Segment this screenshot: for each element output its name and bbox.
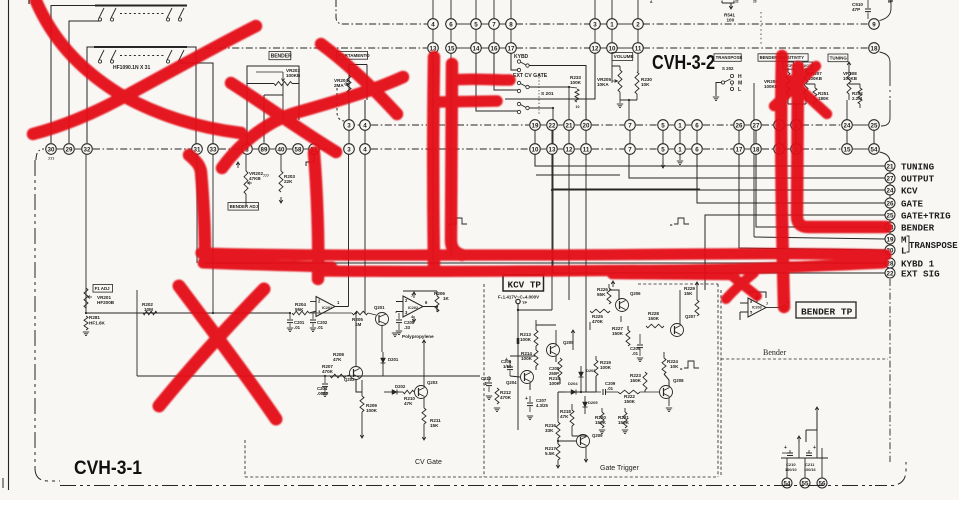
capacitor C201 — [289, 313, 291, 319]
svg-text:.01: .01 — [294, 325, 301, 330]
svg-text:24: 24 — [887, 187, 894, 194]
bus row1 segments — [456, 23, 471, 25]
svg-text:KCV: KCV — [901, 185, 918, 196]
wire S202 M down — [753, 83, 755, 237]
node 21 — [564, 120, 575, 131]
svg-text:EXT CV GATE: EXT CV GATE — [513, 73, 548, 79]
red horizontal H2 short — [203, 263, 332, 267]
red vertical V3 hooked — [189, 155, 205, 258]
svg-text:GATE+TRIG: GATE+TRIG — [901, 210, 951, 221]
wire h175 — [536, 174, 620, 176]
svg-text:19: 19 — [532, 122, 539, 129]
svg-text:8: 8 — [509, 21, 513, 28]
svg-text:47K: 47K — [560, 414, 569, 419]
wire net13 long — [551, 190, 553, 310]
wire caps to nodes — [786, 458, 788, 478]
svg-text:10K: 10K — [670, 364, 679, 369]
svg-text:2MA: 2MA — [334, 83, 344, 88]
wire kcv links — [510, 355, 536, 357]
node 8 — [506, 19, 517, 30]
node 22 — [547, 120, 558, 131]
svg-text:15: 15 — [448, 45, 455, 52]
switch gang dotted — [538, 74, 540, 114]
svg-text:4: 4 — [363, 146, 367, 153]
wire to pin22 net — [552, 108, 554, 273]
arrow net5 — [662, 154, 664, 168]
wire v137 — [136, 290, 138, 376]
red vertical V4 bender — [797, 67, 886, 227]
node 16 — [489, 43, 500, 54]
testpoint bender TP — [766, 307, 782, 309]
svg-text:D202: D202 — [395, 384, 406, 389]
wire row B left — [87, 47, 94, 143]
ground VR205 — [619, 100, 621, 103]
node x2b — [791, 144, 802, 155]
node 20 — [581, 120, 592, 131]
wire net4 portamento long — [364, 154, 366, 313]
node 10b — [530, 144, 541, 155]
svg-text:HF1090.1N X 31: HF1090.1N X 31 — [113, 65, 150, 71]
svg-text:32: 32 — [84, 146, 91, 153]
svg-text:KCV TP: KCV TP — [508, 280, 542, 291]
wire row B common right — [181, 63, 213, 144]
svg-text:100K: 100K — [366, 408, 378, 413]
wire to node24 — [846, 100, 848, 120]
svg-text:14: 14 — [473, 45, 480, 52]
svg-text:.01: .01 — [607, 386, 614, 391]
node 31 — [192, 144, 203, 155]
svg-text:29: 29 — [66, 146, 73, 153]
wire net17 down — [511, 53, 518, 70]
svg-text:30: 30 — [48, 146, 55, 153]
wire Q209 em — [585, 447, 587, 456]
node 11 — [633, 43, 644, 54]
node 89b — [242, 144, 253, 155]
svg-text:D201: D201 — [388, 357, 399, 362]
svg-text:13: 13 — [549, 146, 556, 153]
node 56 bottom — [817, 478, 827, 488]
red X4 leg2 — [790, 80, 827, 114]
svg-text:100K: 100K — [521, 356, 533, 361]
svg-text:5: 5 — [661, 122, 665, 129]
wire left box vertical — [85, 154, 87, 313]
svg-text:3: 3 — [593, 21, 597, 28]
tick marks top edge — [28, 0, 30, 4]
svg-text:TP: TP — [522, 300, 527, 305]
pin 21 TUNING — [885, 161, 895, 171]
svg-text:150K: 150K — [648, 316, 660, 321]
ground S202 — [713, 96, 719, 98]
node 1b — [675, 144, 686, 155]
dashed divider top — [760, 12, 762, 44]
svg-text:TRANSPOSE: TRANSPOSE — [909, 241, 958, 251]
svg-text:1: 1 — [678, 122, 682, 129]
svg-text:100: 100 — [727, 18, 735, 23]
node 89 — [259, 144, 270, 155]
svg-text:10K: 10K — [641, 82, 650, 87]
red horizontal H2 long — [318, 263, 883, 271]
svg-text:150K: 150K — [624, 399, 636, 404]
svg-text:S 201: S 201 — [541, 91, 554, 97]
capacitor C204 — [324, 376, 326, 383]
svg-text:Q208: Q208 — [673, 378, 684, 383]
wire row B right — [187, 47, 196, 144]
wire pin22 down dashdot — [889, 279, 891, 462]
wire net3 portamento long — [348, 154, 350, 306]
wire top-left corner bus 1 — [336, 0, 427, 24]
node 25 row3 — [869, 120, 880, 131]
svg-text:26: 26 — [736, 122, 743, 129]
svg-text:C210: C210 — [786, 462, 796, 467]
svg-text:BENDER TP: BENDER TP — [801, 307, 853, 318]
svg-text:KYBD: KYBD — [514, 54, 529, 60]
wire gate feed — [697, 154, 885, 203]
label KCV TP box — [503, 275, 544, 291]
node 58 — [293, 144, 304, 155]
op-amp IC202 — [403, 296, 423, 317]
red horizontal H5 — [437, 101, 497, 102]
label BENDER ADJ box — [228, 203, 259, 211]
svg-text:M: M — [901, 234, 907, 245]
transistor Q207 — [671, 324, 684, 337]
svg-text:BENDER: BENDER — [271, 53, 293, 59]
node 40 — [276, 144, 287, 155]
red X2 leg1 — [231, 83, 336, 152]
svg-text:15K: 15K — [430, 423, 439, 428]
svg-text:11: 11 — [583, 146, 590, 153]
pin 22 EXT SIG — [885, 268, 895, 278]
pot VR202 — [236, 162, 240, 168]
node 4b — [360, 144, 371, 155]
red X1 leg1 — [36, 1, 241, 133]
red horizontal H1 — [201, 253, 886, 255]
svg-text:IC202: IC202 — [408, 306, 418, 310]
wire M feed — [754, 237, 885, 239]
svg-text:Q205: Q205 — [563, 340, 574, 345]
svg-text:100K: 100K — [570, 80, 582, 85]
label TRANSPOSE bracket — [907, 236, 910, 252]
node 18 — [869, 43, 880, 54]
svg-text:3: 3 — [347, 146, 351, 153]
svg-text:5: 5 — [474, 21, 478, 28]
node 24 row3 — [842, 120, 853, 131]
label TRANSPOSE box — [714, 54, 741, 62]
node 15b — [842, 144, 853, 155]
wire IC202 in — [396, 302, 403, 312]
svg-text:F1 ADJ: F1 ADJ — [95, 286, 111, 291]
red vertical V6 — [314, 153, 318, 279]
node 30 — [46, 144, 57, 155]
node 14 — [471, 43, 482, 54]
wire top stubs — [432, 0, 434, 19]
red horizontal H3 — [612, 274, 734, 275]
svg-text:7: 7 — [628, 146, 632, 153]
wire tuning feed — [535, 154, 885, 166]
wire Q202 collector — [355, 313, 357, 367]
label BENDER TP box — [796, 302, 856, 318]
node 6 row3 — [692, 120, 703, 131]
wire 33 down — [212, 154, 214, 313]
bus row4 segments — [57, 148, 63, 150]
wire lower bus y376 — [137, 375, 480, 377]
transistor Q204 — [521, 371, 534, 384]
node 5 — [471, 19, 482, 30]
node 7 — [489, 19, 500, 30]
node 13 — [428, 43, 439, 54]
svg-text:Q204: Q204 — [506, 380, 517, 385]
svg-text:S 202: S 202 — [722, 66, 734, 71]
wire VR205 top — [612, 65, 620, 67]
wire row A common — [69, 21, 101, 143]
svg-text:25: 25 — [887, 212, 894, 219]
svg-text:4.3/25: 4.3/25 — [536, 403, 549, 408]
svg-text:25: 25 — [871, 122, 878, 129]
wire R233 to pin21 — [568, 87, 570, 120]
wire pin18-25 bracket — [880, 52, 891, 86]
capacitor C211 — [808, 450, 810, 453]
svg-text:19: 19 — [887, 236, 894, 243]
svg-text:6: 6 — [695, 122, 699, 129]
label VCO box — [802, 62, 813, 69]
svg-text:47KB: 47KB — [249, 176, 261, 181]
svg-text:18: 18 — [871, 45, 878, 52]
svg-text:Polypropylene: Polypropylene — [402, 334, 434, 339]
label BENDER box — [269, 52, 291, 60]
wire net12 down — [505, 53, 595, 99]
capacitor C202 — [312, 313, 314, 319]
wire node58 stub — [306, 155, 314, 166]
wire R251 link — [806, 83, 815, 85]
wire net11 long — [585, 154, 587, 392]
svg-text:18: 18 — [753, 146, 760, 153]
svg-text:GATE: GATE — [901, 198, 924, 209]
wire bender sens bottom — [788, 103, 806, 105]
keyboard contacts row A — [99, 8, 104, 18]
node x2 row3 — [791, 120, 802, 131]
svg-text:27: 27 — [753, 122, 760, 129]
svg-text:7: 7 — [492, 21, 496, 28]
svg-text:CVH-3-1: CVH-3-1 — [74, 457, 142, 479]
svg-text:Q203: Q203 — [427, 380, 438, 385]
pin 26 GATE — [885, 198, 895, 208]
dashed bender box — [720, 290, 722, 477]
wire net11 down — [637, 53, 639, 72]
svg-text:17: 17 — [508, 45, 515, 52]
svg-text:22K: 22K — [284, 179, 293, 184]
wire net16 down — [494, 53, 518, 90]
node 7b — [625, 144, 636, 155]
svg-text:470K: 470K — [322, 369, 334, 374]
svg-text:33: 33 — [210, 146, 217, 153]
red vertical V5 — [781, 56, 784, 307]
svg-text:40: 40 — [278, 146, 285, 153]
node 11b — [581, 144, 592, 155]
pin 20 L — [885, 245, 895, 255]
wire gate trigger links — [557, 438, 559, 444]
svg-text:Q201: Q201 — [374, 305, 385, 310]
svg-text:47K: 47K — [404, 401, 413, 406]
switch S201 pole 2 — [517, 81, 520, 84]
wire portamento loop — [349, 65, 367, 120]
wire portamento dashcorner — [337, 88, 344, 121]
svg-text:100K: 100K — [600, 365, 612, 370]
wire h189 — [552, 188, 700, 190]
wire extsig feed — [553, 272, 885, 274]
svg-text:150K: 150K — [612, 331, 624, 336]
diode D201 — [382, 352, 384, 358]
node 1 row3 — [675, 120, 686, 131]
svg-text:777: 777 — [48, 157, 54, 161]
dashed box CV gate — [244, 440, 246, 477]
wire net14 down — [476, 53, 518, 111]
svg-text:.0055: .0055 — [317, 391, 328, 396]
wire Q202 emitter net — [356, 380, 362, 393]
svg-text:11: 11 — [635, 45, 642, 52]
wire gatetrig feed — [705, 215, 885, 290]
node 18b — [751, 144, 762, 155]
pin 24 KCV — [885, 185, 895, 195]
wire Q208 em — [668, 398, 670, 406]
node 27 — [751, 120, 762, 131]
wire VR203 top loop — [247, 66, 299, 84]
wire net13 down — [432, 53, 434, 260]
svg-text:47K: 47K — [333, 357, 342, 362]
capacitor C203 — [398, 313, 400, 319]
svg-text:15: 15 — [844, 146, 851, 153]
node 5 row3 — [658, 120, 669, 131]
svg-text:15K: 15K — [684, 291, 693, 296]
label BENDER SENSITIVITY box — [758, 54, 808, 61]
svg-text:BENDER ADJ: BENDER ADJ — [230, 204, 259, 209]
svg-text:CVH-3-2: CVH-3-2 — [652, 51, 715, 74]
svg-text:.01: .01 — [317, 325, 324, 330]
node 6 — [446, 19, 457, 30]
svg-text:IC201: IC201 — [322, 306, 332, 310]
wire Q202 base — [346, 375, 350, 376]
wire keyboard bus row B bar — [94, 46, 187, 48]
pin 28 KYBD 1 — [885, 258, 895, 268]
svg-text:100K: 100K — [520, 337, 532, 342]
svg-text:R281: R281 — [89, 315, 100, 320]
node 55 bottom — [800, 478, 810, 488]
op-amp IC201 — [316, 297, 335, 317]
wire IC201 out — [335, 306, 349, 308]
svg-text:26: 26 — [887, 200, 894, 207]
squarewave sym 1 — [452, 218, 467, 224]
bus row3 segments — [344, 124, 427, 126]
svg-text:Bender: Bender — [763, 348, 786, 357]
wire L feed — [739, 154, 885, 250]
svg-text:D204: D204 — [568, 381, 578, 386]
node 1 — [607, 19, 618, 30]
svg-text:HF200B: HF200B — [97, 300, 115, 305]
svg-text:2.2M: 2.2M — [852, 96, 862, 101]
resistor R541 — [722, 1, 734, 4]
svg-text:BENDER: BENDER — [901, 222, 935, 233]
red horizontal H4 — [452, 73, 510, 85]
wire pin9 bracket — [880, 0, 892, 21]
wire output feed — [629, 154, 885, 178]
svg-text:L: L — [901, 245, 907, 256]
wire S201 pole1 out — [529, 66, 586, 120]
node 51 — [309, 144, 320, 155]
svg-text:12: 12 — [566, 146, 573, 153]
red X3 leg1 — [179, 286, 276, 419]
svg-text:D205: D205 — [588, 400, 598, 405]
svg-text:55K: 55K — [597, 292, 606, 297]
svg-text:CV Gate: CV Gate — [415, 459, 442, 466]
red vertical V2 — [451, 64, 462, 255]
svg-text:55: 55 — [802, 480, 809, 487]
svg-text:10KA: 10KA — [597, 82, 609, 87]
red X1 leg2 — [33, 26, 256, 134]
wire net10 down — [611, 53, 613, 81]
svg-text:Q207: Q207 — [685, 314, 696, 319]
wire wiper down — [282, 84, 284, 121]
svg-text:24: 24 — [844, 122, 851, 129]
wire bender feed — [756, 154, 885, 227]
svg-text:Q209: Q209 — [592, 433, 603, 438]
wire 31 down — [196, 154, 198, 263]
svg-text:Q206: Q206 — [630, 291, 641, 296]
red X5 leg1 — [321, 44, 397, 114]
node 17 — [506, 43, 517, 54]
red small x mark — [727, 272, 757, 296]
wire net12 long — [568, 154, 570, 300]
wire bender tp in — [740, 303, 748, 320]
node 9 — [869, 19, 880, 30]
svg-text:2: 2 — [636, 21, 640, 28]
svg-text:4: 4 — [431, 21, 435, 28]
wire R230 bottom — [620, 99, 637, 101]
red vertical V1 — [427, 57, 440, 266]
red X3 leg2 — [159, 289, 264, 406]
wire to node — [795, 104, 797, 120]
wire bottomright rails — [781, 457, 828, 459]
pin 25 GATE+TRIG — [885, 210, 895, 220]
label PORTAMENTO box — [337, 52, 368, 60]
pin 27 OUTPUT — [885, 173, 895, 183]
red X4 leg1 — [774, 66, 816, 106]
wire Q205 collector — [555, 330, 557, 344]
svg-text:20: 20 — [753, 0, 757, 4]
wire pin54 bracket — [880, 152, 891, 273]
svg-text:1K: 1K — [443, 296, 450, 301]
label TUNING box — [828, 54, 848, 62]
wire VR203 right — [292, 84, 299, 121]
op-amp IC203 bender tp — [748, 298, 766, 317]
svg-text:OUTPUT: OUTPUT — [901, 173, 935, 184]
wire row3-row4 connectors — [348, 130, 350, 143]
svg-text:10: 10 — [609, 45, 616, 52]
node 26 — [734, 120, 745, 131]
bus row2 segments — [205, 47, 427, 49]
svg-text:+: + — [784, 445, 787, 451]
svg-text:5: 5 — [661, 146, 665, 153]
node 10 — [607, 43, 618, 54]
svg-text:20: 20 — [583, 122, 590, 129]
svg-text:F₁1.417V~C₅4.000V: F₁1.417V~C₅4.000V — [498, 295, 539, 300]
svg-text:TUNING: TUNING — [830, 55, 848, 60]
node 4 portamento — [360, 120, 371, 131]
wire keyboard bus row A bar — [95, 5, 187, 7]
svg-text:TUNING: TUNING — [901, 161, 935, 172]
node 15 — [446, 43, 457, 54]
transistor Q208 — [660, 386, 673, 399]
wire to node7 — [628, 100, 630, 120]
svg-text:100/16: 100/16 — [804, 468, 816, 472]
node 12 — [590, 43, 601, 54]
